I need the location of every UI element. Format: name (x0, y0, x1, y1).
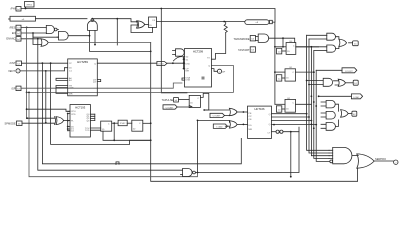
input ENANC (6, 37, 21, 42)
svg-text:COUNT: COUNT (166, 107, 174, 109)
wire B0 D (275, 46, 286, 48)
wire COUNT3 (316, 69, 342, 71)
flip-flop B2 (285, 98, 296, 112)
wire U28 out (348, 112, 352, 114)
AND gate U20 (327, 33, 336, 40)
svg-text:DS0: DS0 (186, 64, 191, 66)
svg-text:A1: A1 (69, 79, 72, 82)
wire LOAD3 (319, 95, 352, 97)
svg-text:TASTART: TASTART (238, 48, 250, 52)
svg-text:MR: MR (186, 71, 190, 73)
flip-flop U16 (189, 95, 200, 107)
wire U7 out (64, 120, 70, 122)
wire serial net (283, 131, 299, 133)
svg-text:D2: D2 (71, 131, 75, 133)
svg-text:/CNT: /CNT (9, 61, 15, 65)
junction toggle node (92, 18, 94, 20)
svg-text:C: C (292, 72, 294, 74)
wire U24 out (346, 82, 354, 84)
svg-text:1D: 1D (287, 51, 290, 53)
svg-text:GND: GND (69, 87, 74, 89)
svg-text:1D: 1D (69, 68, 72, 70)
svg-text:LOAD: LOAD (158, 63, 164, 66)
label /PHI2 clock (118, 120, 127, 126)
svg-text:/PHI: /PHI (10, 7, 15, 11)
wire TO feedback (212, 33, 226, 60)
svg-text:1D: 1D (102, 129, 105, 131)
OR gate U24 (334, 79, 346, 86)
wire ENANC (21, 38, 41, 40)
svg-text:TAPULSE: TAPULSE (162, 98, 174, 102)
OR gate U6 (41, 39, 48, 47)
bus vertical A (307, 35, 330, 150)
wire U19 Q3 (272, 124, 317, 126)
svg-text:PL: PL (71, 121, 74, 123)
wire FF bottom rail (103, 131, 151, 140)
wire U15 out to B0 (269, 38, 295, 42)
vertical bus third (51, 63, 151, 144)
vertical junction to count net (197, 120, 199, 172)
svg-text:1D: 1D (190, 103, 193, 105)
OR gate U22 (336, 37, 347, 49)
wire mode net y92 (27, 66, 234, 93)
input /PHI (10, 7, 21, 12)
OR gate U18 (229, 121, 237, 128)
label flag COUNT 3 (342, 68, 357, 73)
svg-text:b1: b1 (354, 43, 357, 45)
svg-text:MR: MR (69, 93, 73, 95)
svg-text:1D: 1D (133, 129, 136, 131)
svg-text:b4: b4 (175, 100, 178, 102)
wire U12 out (195, 127, 299, 172)
svg-text:Q3: Q3 (86, 120, 90, 122)
output box E2 (352, 111, 357, 116)
vertical outer reset rail (29, 92, 198, 176)
svg-text:Q: Q (94, 63, 96, 65)
svg-text:FF: FF (153, 20, 156, 22)
label /PHI2 (25, 2, 35, 10)
clock box B0 (277, 48, 287, 54)
wire U1 input 2 (94, 30, 96, 44)
NAND gate vertical U1 (88, 19, 98, 31)
OR gate U28 (336, 104, 349, 126)
resistor R1 (224, 22, 227, 33)
svg-text:b4: b4 (17, 63, 20, 65)
wire U8 Q3 Q4 stubs (97, 80, 100, 82)
svg-text:1D: 1D (286, 109, 289, 111)
wire U18 out (237, 123, 247, 125)
input SPMODE (5, 121, 22, 126)
flip-flop U10 (101, 121, 112, 131)
stubs into U23 (307, 81, 324, 85)
connector AP (217, 69, 225, 73)
wire LOAD2 to U18 (225, 125, 229, 127)
wire U3 feedback bottom (131, 25, 153, 33)
vertical bus /RES (26, 27, 28, 118)
wire U19 Q2 (272, 120, 312, 122)
wire B1 D (275, 71, 285, 73)
flip-flop U3 (149, 17, 157, 28)
label flag COUNT 2 (210, 113, 225, 117)
svg-text:1D: 1D (149, 25, 152, 27)
svg-text:MR: MR (249, 129, 253, 131)
delay line u6 (9, 16, 36, 21)
svg-text:E2: E2 (353, 114, 356, 116)
svg-text:1a: 1a (278, 78, 281, 80)
wire U13 DSA DSB stubs (182, 78, 185, 80)
junction FF2 out (150, 122, 152, 124)
svg-text:1D: 1D (286, 78, 289, 80)
OR gate U17 (229, 108, 237, 115)
wire branch down from toggle (116, 19, 118, 45)
wire U10 out (112, 122, 118, 124)
wire to U9 PL (27, 109, 70, 111)
wire B2 Q (296, 103, 312, 105)
wire /RES (21, 26, 46, 28)
svg-text:b4: b4 (17, 28, 20, 30)
bus vertical E (316, 70, 331, 161)
svg-text:COUNT: COUNT (213, 116, 221, 118)
IC U8 HCT259 (68, 59, 98, 96)
wire toggle feedback top (92, 18, 117, 20)
svg-text:LOAD: LOAD (217, 126, 223, 129)
wire U22 out (349, 42, 353, 44)
wire TAPULSE to U16 (178, 99, 189, 101)
wire U9 TC outputs (90, 128, 100, 130)
svg-text:b4: b4 (17, 33, 20, 35)
label flag LOAD (157, 62, 167, 66)
AND gate U5 (57, 30, 68, 41)
svg-text:SPMODE: SPMODE (5, 122, 17, 126)
wire U19 Q0 (272, 113, 307, 115)
wire B1 Q (296, 71, 314, 73)
svg-text:Q: Q (269, 114, 271, 116)
AND gate U26 (321, 111, 335, 119)
flip-flop U11 (132, 120, 143, 131)
wire to xor U7 in1 (27, 117, 55, 119)
svg-text:AP: AP (222, 70, 225, 73)
wire U5 out (68, 35, 89, 37)
svg-text:HCT166: HCT166 (254, 107, 265, 111)
wire U19 Q1 (272, 116, 310, 118)
wire U8 TR GND MR (56, 86, 68, 94)
svg-text:10: 10 (278, 109, 281, 111)
OR gate U30 (357, 154, 374, 168)
bus vertical B (309, 39, 329, 153)
svg-text:CPD: CPD (71, 114, 76, 116)
svg-text:C: C (293, 46, 295, 48)
svg-text:E1: E1 (354, 83, 357, 85)
wire SPMODE to U7 (22, 122, 55, 124)
svg-text:DS: DS (249, 125, 253, 127)
input /CNT (9, 61, 21, 66)
IC U19 HCT166 (248, 106, 272, 138)
wire U9 Q outputs (90, 114, 94, 120)
wire U8 A pins (56, 78, 68, 80)
wire to OR U17 (204, 109, 229, 111)
svg-text:u6: u6 (22, 19, 25, 21)
svg-text:10: 10 (278, 51, 281, 53)
wire U1 input 1 (90, 30, 151, 51)
wire EN (21, 32, 46, 34)
junction dots U13 left (183, 58, 185, 60)
label flag LOAD 2 (213, 124, 227, 129)
svg-text:Q: Q (208, 66, 210, 68)
svg-text:COUNT: COUNT (345, 71, 353, 73)
wire xor out (145, 24, 149, 26)
wire count gate feed (198, 120, 230, 122)
wire B2 D (275, 103, 285, 105)
junction /PHI wire (160, 8, 162, 10)
AND gate U21 (327, 45, 336, 52)
wire U3 out to u8 (157, 21, 245, 23)
svg-text:/SP: /SP (11, 86, 15, 90)
clock tick U8 (64, 68, 67, 71)
wire u8 out vertical (272, 22, 275, 104)
svg-text:1P: 1P (69, 63, 72, 65)
input TAPANMODE (233, 36, 255, 41)
IC U13 HCT299 (185, 49, 212, 88)
AND gate U25 (321, 101, 335, 108)
svg-text:C: C (197, 98, 199, 100)
svg-text:b4: b4 (17, 9, 20, 11)
xor gate U2 (136, 21, 144, 28)
input /SP (11, 86, 21, 91)
svg-text:SERPRO: SERPRO (375, 157, 386, 161)
wire to U11 (127, 122, 132, 124)
input EN (12, 31, 21, 36)
svg-text:CPU: CPU (71, 111, 76, 113)
wire /SP long (21, 83, 182, 88)
AND gate U14 (173, 49, 185, 56)
output connector SERPRO (375, 157, 398, 164)
svg-text:Q4: Q4 (93, 81, 97, 83)
svg-text:b4: b4 (17, 39, 20, 41)
svg-text:VENT: VENT (8, 69, 15, 73)
label hop 2 (116, 162, 119, 165)
big AND gate U29 (329, 147, 352, 163)
wire U11 out (143, 122, 151, 124)
svg-text:PE: PE (249, 113, 252, 115)
bus vertical D (314, 51, 329, 159)
NAND gate U12 (181, 169, 196, 177)
long vertical feedback bus (151, 43, 358, 182)
svg-text:ENANC: ENANC (6, 37, 15, 41)
input TAPULSE (162, 98, 179, 103)
wire U17 out (237, 111, 247, 113)
input /RES (9, 25, 21, 30)
wire /PHI branch down (161, 9, 187, 93)
svg-text:S1: S1 (186, 60, 189, 62)
AND gate U15 (256, 34, 269, 42)
svg-text:CE: CE (249, 119, 253, 121)
vertical bus ENANC (38, 39, 183, 170)
clock box B1 (276, 75, 285, 81)
output box E1 (353, 80, 358, 85)
wire EN to U6 (33, 33, 41, 45)
IC U9 HCT193 (70, 105, 90, 138)
input VENT connector (8, 69, 20, 73)
wire U29 out (352, 155, 358, 157)
XOR gate U7 (55, 117, 64, 125)
svg-text:C: C (139, 123, 141, 125)
wire AP output (212, 69, 218, 72)
svg-text:C: C (292, 102, 294, 104)
bus vertical C (311, 47, 329, 156)
wire U8 Q out (97, 62, 157, 64)
wire /PHI net top (21, 9, 275, 23)
svg-text:S0: S0 (186, 57, 189, 59)
svg-text:C: C (108, 124, 110, 126)
svg-text:DSB: DSB (186, 80, 191, 82)
AND gate U27 (321, 123, 335, 131)
svg-text:TCD: TCD (85, 130, 90, 132)
input TASTART (238, 47, 255, 52)
wire COUNT2 to U17 (225, 115, 230, 117)
svg-text:HCT193: HCT193 (75, 105, 86, 109)
vertical bus /CNT (42, 63, 241, 164)
svg-text:/PHI2: /PHI2 (26, 4, 32, 6)
wire U6 out long (48, 42, 151, 44)
label flag LOAD 3 (351, 94, 362, 99)
output box b1 (353, 41, 359, 46)
svg-text:CT: CT (267, 133, 271, 135)
junction u8 tap (223, 21, 225, 23)
AND gate U23 (323, 78, 332, 86)
NAND gate U4 (46, 25, 57, 33)
wire hop arc (173, 57, 183, 61)
wire EN to U5 (33, 33, 59, 37)
svg-text:Q: Q (269, 124, 271, 126)
vertical bus VENT (45, 71, 47, 123)
junction dots U9 left (67, 113, 69, 115)
svg-text:b4: b4 (252, 38, 255, 40)
svg-text:CP: CP (249, 116, 253, 118)
svg-text:TO: TO (207, 58, 210, 60)
wire B0 Q (296, 46, 319, 48)
wire COUNT to U16 clk (177, 106, 189, 108)
svg-text:b4: b4 (18, 123, 21, 125)
svg-text:EN: EN (12, 31, 16, 35)
delay line u8 (245, 20, 272, 25)
wire LOAD to U13 (167, 62, 185, 64)
svg-text:HCT259: HCT259 (77, 60, 88, 64)
svg-text:C1: C1 (69, 71, 73, 73)
flip-flop B1 (285, 67, 296, 81)
svg-text:LOAD: LOAD (353, 96, 359, 99)
svg-text:/PHI2: /PHI2 (120, 123, 126, 125)
buffer bubbles (272, 131, 277, 133)
wire U30 out (374, 160, 393, 162)
wire /CNT to U8 (22, 62, 68, 64)
svg-text:/RES: /RES (9, 25, 15, 29)
wire B0 Q through AND U21 (296, 46, 327, 48)
wire VENT to U8 (20, 70, 64, 72)
svg-text:b4: b4 (17, 89, 20, 91)
svg-text:u8: u8 (256, 22, 259, 24)
svg-text:TAPANMODE: TAPANMODE (233, 37, 249, 41)
svg-text:b4: b4 (252, 50, 255, 52)
flip-flop B0 (286, 41, 296, 55)
wire U16 Q wrap (200, 93, 208, 110)
svg-text:HCT299: HCT299 (193, 49, 204, 53)
label flag COUNT (163, 105, 177, 110)
clock box B2 (276, 106, 285, 112)
wire u6 output (36, 18, 88, 20)
